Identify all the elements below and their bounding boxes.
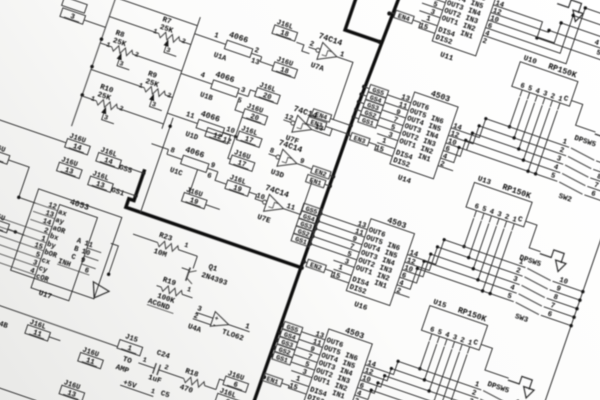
svg-text:7: 7	[549, 302, 556, 311]
svg-text:3: 3	[451, 334, 458, 343]
wire: pot left rail	[72, 0, 116, 126]
svg-text:4: 4	[488, 208, 495, 217]
svg-text:C5: C5	[159, 390, 171, 400]
wire: U1B input	[181, 73, 197, 79]
junction dots main bus	[387, 11, 392, 16]
svg-text:4: 4	[444, 331, 451, 340]
wires U17 outputs loop	[101, 243, 118, 274]
svg-text:4503: 4503	[344, 327, 366, 342]
wire: U1A input	[195, 34, 211, 40]
U16 GS flags and stubs	[301, 203, 321, 216]
svg-text:U7E: U7E	[256, 214, 272, 226]
svg-text:13: 13	[250, 57, 261, 67]
svg-text:TLO62: TLO62	[221, 329, 245, 344]
wire: pot right rail	[162, 17, 200, 129]
svg-text:8: 8	[596, 173, 600, 182]
svg-text:12: 12	[283, 113, 294, 123]
svg-text:6: 6	[429, 326, 436, 335]
svg-text:R19: R19	[161, 276, 177, 288]
svg-text:RP150K: RP150K	[547, 62, 578, 80]
svg-text:GS1: GS1	[110, 187, 126, 199]
svg-text:4066: 4066	[184, 146, 206, 161]
net flag EN3 from U7F	[306, 117, 326, 130]
svg-text:U3D: U3D	[269, 169, 285, 181]
svg-text:6: 6	[519, 82, 526, 91]
U10 pin wires down to SW2 rows	[509, 97, 519, 126]
svg-text:9: 9	[209, 162, 216, 171]
svg-text:9: 9	[555, 285, 562, 294]
svg-text:5: 5	[549, 172, 556, 181]
svg-text:4: 4	[509, 284, 516, 293]
junction dots pot rail	[99, 37, 104, 42]
svg-text:C: C	[516, 216, 523, 225]
svg-text:4: 4	[534, 87, 541, 96]
svg-text:1: 1	[149, 388, 155, 397]
svg-text:9: 9	[298, 158, 305, 167]
svg-text:1: 1	[141, 356, 147, 365]
svg-text:3: 3	[512, 275, 519, 284]
wire: ctrl U1C to J16U19	[189, 170, 197, 195]
U13 pin wires down to SW3 rows	[464, 218, 474, 246]
svg-text:R18: R18	[184, 368, 200, 380]
net flag EN1 to U18 DIS	[262, 373, 282, 386]
svg-text:1: 1	[381, 137, 388, 146]
svg-text:5: 5	[526, 85, 533, 94]
wires U11 IN to top mesh (SW1)	[488, 5, 600, 79]
wire: sheet right border	[503, 12, 600, 400]
net flag EN2 to U16 DIS	[306, 259, 326, 272]
svg-text:2: 2	[253, 47, 260, 56]
wire bottom left	[0, 385, 37, 400]
svg-text:1: 1	[425, 15, 432, 24]
svg-text:1: 1	[338, 51, 345, 60]
svg-text:11: 11	[285, 203, 296, 214]
svg-text:414B: 414B	[0, 318, 9, 331]
svg-text:4: 4	[593, 39, 600, 48]
svg-text:AMP: AMP	[114, 364, 130, 376]
wires U14 IN to SW2 rows	[451, 109, 512, 147]
svg-text:7: 7	[593, 182, 600, 191]
svg-text:1: 1	[244, 323, 251, 332]
svg-text:4: 4	[199, 72, 206, 81]
junction dots left GS bus	[141, 170, 146, 175]
svg-text:2: 2	[503, 213, 510, 222]
svg-text:1: 1	[186, 286, 192, 295]
svg-text:1: 1	[213, 32, 220, 41]
svg-text:TO: TO	[121, 356, 133, 367]
wires U16 IN to SW3 rows	[407, 230, 468, 273]
svg-text:U1A: U1A	[212, 52, 227, 64]
flag top-left 3	[62, 0, 88, 13]
svg-text:SW3: SW3	[514, 313, 530, 325]
U14 GS flags and stubs	[368, 84, 388, 97]
svg-text:C24: C24	[155, 349, 171, 361]
svg-text:+5V: +5V	[122, 379, 138, 391]
net flag EN4 to U11 DIS	[394, 10, 414, 23]
svg-text:1: 1	[183, 242, 189, 251]
svg-text:5: 5	[595, 49, 600, 58]
switch SW3 DPSW5	[469, 248, 526, 268]
svg-text:3: 3	[496, 211, 503, 220]
switch SW4 DPSW5 (partial)	[425, 370, 482, 390]
svg-text:1: 1	[473, 381, 480, 390]
svg-text:2: 2	[459, 337, 466, 346]
svg-text:U1D: U1D	[184, 131, 199, 143]
svg-text:4: 4	[552, 164, 559, 173]
svg-text:6: 6	[473, 203, 480, 212]
svg-text:RP150K: RP150K	[501, 183, 532, 201]
svg-text:5: 5	[481, 206, 488, 215]
svg-text:R23: R23	[158, 232, 174, 244]
net flag EN3 to U14 DIS	[350, 133, 370, 146]
svg-text:SW2: SW2	[557, 193, 573, 205]
svg-text:DPSW5: DPSW5	[573, 135, 597, 150]
DPSW5 arrow top right (SW1)	[557, 0, 582, 13]
svg-text:U1C: U1C	[168, 167, 183, 179]
svg-text:10: 10	[255, 192, 266, 202]
svg-text:6: 6	[206, 172, 213, 181]
wire: pot top rail	[116, 0, 198, 26]
wire: thick main vertical bus	[249, 0, 399, 400]
svg-text:4066: 4066	[228, 31, 250, 46]
wire: U1D input	[167, 113, 182, 118]
U15 pin wires down to SW4 rows	[420, 341, 429, 368]
svg-text:8: 8	[169, 147, 176, 156]
svg-text:4066: 4066	[214, 70, 236, 85]
svg-text:2: 2	[470, 389, 477, 398]
svg-text:2: 2	[515, 267, 522, 276]
wire: vertical x202	[141, 118, 174, 213]
net flag EN1 from U7E	[306, 174, 326, 187]
svg-text:3: 3	[555, 155, 562, 164]
svg-text:U11: U11	[439, 51, 455, 63]
svg-text:4503: 4503	[429, 90, 451, 105]
svg-text:8: 8	[268, 147, 275, 156]
svg-text:1uF: 1uF	[147, 374, 163, 386]
svg-text:1: 1	[561, 138, 568, 147]
svg-text:U7A: U7A	[309, 62, 325, 74]
wire: U1C input 8	[151, 144, 168, 150]
svg-text:4503: 4503	[386, 216, 408, 231]
svg-text:3: 3	[542, 90, 549, 99]
svg-text:U4A: U4A	[186, 323, 202, 335]
svg-text:2: 2	[558, 147, 565, 156]
svg-text:6: 6	[590, 190, 597, 199]
svg-text:13: 13	[313, 124, 324, 134]
svg-text:5: 5	[436, 329, 443, 338]
flag 12 (U1D ctrl)	[205, 128, 231, 144]
svg-text:RP150K: RP150K	[456, 306, 487, 324]
op-amp U4A TL062	[210, 312, 231, 332]
wire to J15	[0, 305, 118, 347]
svg-text:5: 5	[506, 292, 513, 301]
svg-text:U17: U17	[37, 290, 52, 302]
svg-text:6: 6	[546, 311, 553, 320]
net flag EN4 from U7A	[311, 109, 331, 122]
svg-text:2N4393: 2N4393	[200, 272, 229, 289]
svg-text:3: 3	[239, 87, 246, 96]
svg-text:U16: U16	[353, 301, 369, 313]
svg-text:2: 2	[163, 364, 169, 373]
off-page arrow below U17	[88, 282, 110, 302]
svg-text:1: 1	[337, 264, 344, 273]
svg-text:Q1: Q1	[207, 264, 219, 275]
svg-text:1: 1	[294, 375, 301, 384]
switch SW2 DPSW5	[512, 128, 569, 148]
net flag EN2 from U3D	[311, 166, 331, 179]
U18 GS flags and stubs	[282, 321, 302, 334]
svg-text:10: 10	[225, 126, 236, 136]
svg-text:C: C	[562, 95, 569, 104]
svg-text:U1B: U1B	[199, 91, 214, 103]
svg-text:4066: 4066	[199, 110, 221, 125]
svg-text:2: 2	[549, 93, 556, 102]
wire: thick left GS bus	[126, 168, 314, 268]
svg-text:8: 8	[552, 294, 559, 303]
wire: thick bus top-left branch	[345, 0, 394, 43]
svg-text:GS5: GS5	[118, 164, 134, 176]
dots SW3 right on border	[581, 289, 586, 294]
wires U18 IN to SW4 rows	[365, 352, 424, 384]
svg-text:2: 2	[308, 40, 315, 49]
svg-text:U14: U14	[396, 174, 412, 186]
svg-text:C: C	[472, 339, 479, 348]
